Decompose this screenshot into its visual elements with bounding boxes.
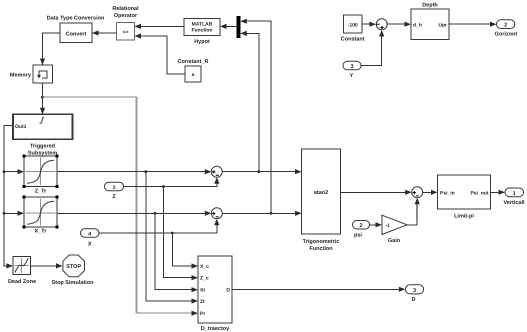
svg-text:Stop Simulation: Stop Simulation <box>52 280 95 286</box>
wire branch down to Z_c input <box>163 187 193 278</box>
wire branch down to X_c input <box>172 233 193 266</box>
svg-text:Gain: Gain <box>388 238 401 244</box>
block Constant -100 <box>341 15 365 43</box>
sum S2 <box>211 208 222 219</box>
svg-text:Zt: Zt <box>200 299 205 305</box>
svg-text:Xt: Xt <box>200 288 205 294</box>
block Gain (-1) <box>382 215 407 244</box>
wire sum4 to Depth <box>388 23 407 25</box>
svg-text:3: 3 <box>413 288 416 294</box>
svg-text:D: D <box>226 287 230 293</box>
wire Out1 down the left edge to Dead Zone <box>4 125 13 266</box>
port output 1 Verticall <box>503 188 525 206</box>
svg-text:Constant: Constant <box>341 37 365 43</box>
wire Constant -100 to sum4 <box>362 23 371 25</box>
wire Memory to Triggered Subsystem trigger <box>42 83 44 114</box>
port output 2 Gorizont <box>495 20 518 38</box>
block X_Tr <box>23 196 59 235</box>
svg-text:Function: Function <box>309 246 333 252</box>
block Z_Tr <box>23 155 59 195</box>
svg-text:Hypot: Hypot <box>194 39 210 45</box>
svg-text:a: a <box>192 72 195 78</box>
svg-text:Data Type Conversion: Data Type Conversion <box>47 16 105 22</box>
wire Z_Tr output to sum1 <box>57 171 206 173</box>
svg-text:Verticall: Verticall <box>503 200 525 206</box>
wire sum3 to Limit-pi <box>423 191 432 193</box>
svg-text:Convert: Convert <box>66 32 87 38</box>
wire MATLAB Function to RO <box>140 25 184 27</box>
svg-text:Function: Function <box>191 28 212 34</box>
node ZTr-Zt junction <box>144 170 147 173</box>
svg-text:Relational: Relational <box>112 6 139 12</box>
svg-text:<=: <= <box>123 30 129 36</box>
sum S1 <box>211 166 222 177</box>
svg-text:X: X <box>88 242 92 248</box>
wire Gain to sum3 bottom <box>407 221 417 225</box>
svg-text:Trigonometric: Trigonometric <box>303 239 340 245</box>
block MATLAB Function (Hypot) <box>184 19 220 46</box>
port input 1 Z <box>105 182 124 200</box>
node out1-XTr junction <box>3 212 6 215</box>
wire port psi to Gain <box>370 224 378 226</box>
block Limit-pi <box>438 175 491 220</box>
svg-text:D: D <box>412 297 416 303</box>
svg-text:D_traectoy: D_traectoy <box>201 326 230 332</box>
svg-text:Depth: Depth <box>422 3 438 9</box>
wire sum2 branch up to Mux top input <box>246 21 272 213</box>
port input 2 psi <box>353 221 370 239</box>
wire port X to sum2 bottom <box>99 224 217 233</box>
wire Dead Zone to Stop Simulation <box>30 265 57 267</box>
wire Out1 branch to X_Tr <box>4 212 19 214</box>
wire Mux to MATLAB Function <box>225 25 237 27</box>
svg-text:Triggered: Triggered <box>30 144 55 150</box>
svg-text:X_Tr: X_Tr <box>35 229 48 235</box>
svg-text:STOP: STOP <box>66 264 81 270</box>
svg-text:1: 1 <box>112 185 115 191</box>
svg-text:Gorizont: Gorizont <box>495 32 518 38</box>
block Depth <box>411 3 449 40</box>
svg-text:Z_c: Z_c <box>200 276 209 282</box>
svg-text:2: 2 <box>359 223 362 229</box>
svg-text:2: 2 <box>504 23 507 29</box>
svg-text:-1: -1 <box>386 223 391 229</box>
sum S3 <box>412 187 423 198</box>
svg-text:psi: psi <box>354 233 362 239</box>
svg-text:Psi_out: Psi_out <box>470 190 488 196</box>
node out1-ZTr junction <box>3 170 6 173</box>
node Z-Zc junction <box>162 185 165 188</box>
port input 4 X <box>81 229 100 248</box>
wire Convert to Memory <box>43 33 61 65</box>
block Memory <box>10 65 53 83</box>
block Relational Operator <box>112 6 139 40</box>
wire sum1 branch up to Mux bottom input <box>246 33 259 171</box>
svg-text:X_c: X_c <box>200 264 209 270</box>
wire port Y to sum4 bottom <box>361 35 382 66</box>
svg-text:Dead Zone: Dead Zone <box>8 279 36 285</box>
svg-text:Out1: Out1 <box>15 124 27 130</box>
wire atan2 to sum3 <box>341 191 407 193</box>
block Constant_R <box>178 59 209 82</box>
sum S4 <box>376 19 387 30</box>
svg-text:Memory: Memory <box>10 73 32 79</box>
wire Depth to port Gorizont <box>449 23 492 25</box>
svg-text:Z_Tr: Z_Tr <box>35 189 47 195</box>
svg-text:Constant_R: Constant_R <box>178 59 209 65</box>
block D_traectoy <box>198 256 232 332</box>
svg-text:d_h: d_h <box>413 23 422 29</box>
wire Limit-pi to port Verticall <box>491 191 501 193</box>
wire X_Tr output to sum2 <box>57 212 206 214</box>
node X-Xc junction <box>171 232 174 235</box>
wire D_traectoy to port D <box>232 288 401 290</box>
svg-text:1: 1 <box>513 191 516 197</box>
wire Constant_R to RO <box>140 36 185 74</box>
wire Memory branch to Pr input (gray) <box>43 96 138 98</box>
svg-text:Pr: Pr <box>200 311 205 317</box>
svg-text:atan2: atan2 <box>314 190 328 196</box>
svg-text:Upr: Upr <box>438 23 447 29</box>
wire branch down to Zt input <box>146 172 193 301</box>
block Triggered Subsystem <box>13 114 73 156</box>
svg-text:Psi_in: Psi_in <box>440 190 455 196</box>
svg-text:Y: Y <box>349 73 353 79</box>
node XTr-Xt junction <box>154 212 157 215</box>
wire port Z to sum1 bottom <box>124 182 217 187</box>
node memory-branch junction <box>41 96 44 99</box>
svg-text:Z: Z <box>112 194 116 200</box>
svg-text:Operator: Operator <box>114 13 138 19</box>
svg-text:Limit-pi: Limit-pi <box>454 214 474 220</box>
wire sum2 to atan2 input2 <box>222 212 296 214</box>
wire RO to Convert <box>92 32 117 34</box>
port input 3 Y <box>343 61 361 79</box>
port output 3 D <box>405 285 423 303</box>
block Dead Zone <box>8 256 36 285</box>
block Stop Simulation (STOP) <box>52 255 95 286</box>
wire sum1 to atan2 input1 <box>222 171 296 173</box>
svg-text:3: 3 <box>350 64 353 70</box>
wire branch down to Xt input <box>155 213 193 289</box>
svg-text:-100: -100 <box>348 23 358 29</box>
mux bar <box>237 16 241 38</box>
block Trigonometric Function (atan2) <box>302 149 341 252</box>
wire Out1 branch to Z_Tr <box>4 171 19 173</box>
block Data Type Conversion (Convert) <box>47 16 105 43</box>
